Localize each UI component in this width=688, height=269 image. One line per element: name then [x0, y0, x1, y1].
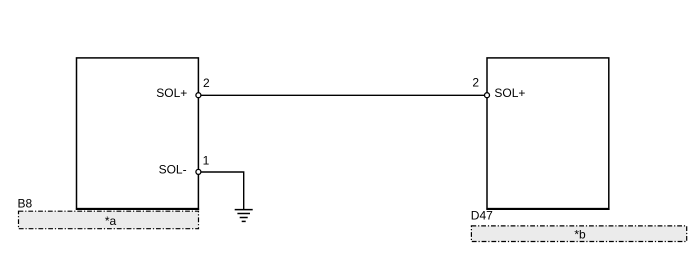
pin number 2 (B8) — [203, 76, 210, 90]
svg-text:SOL-: SOL- — [159, 163, 187, 177]
pin label SOL+ (D47) — [494, 86, 525, 100]
svg-text:SOL+: SOL+ — [156, 86, 187, 100]
pin number 1 (B8) — [203, 154, 210, 168]
pin number 2 (D47) — [472, 75, 479, 89]
svg-text:*a: *a — [105, 214, 117, 228]
svg-text:*b: *b — [574, 228, 586, 242]
component box B8 bottom edge — [76, 208, 199, 210]
svg-text:SOL+: SOL+ — [494, 86, 525, 100]
shield band *a — [19, 211, 199, 229]
pin label SOL- (B8) — [159, 163, 187, 177]
pin label SOL+ (B8) — [156, 86, 187, 100]
svg-text:D47: D47 — [471, 209, 493, 223]
svg-text:1: 1 — [203, 154, 210, 168]
pin 2 of B8 — [196, 93, 201, 98]
pin 1 of B8 — [196, 169, 201, 174]
svg-text:2: 2 — [203, 76, 210, 90]
component box D47 — [487, 58, 609, 209]
ground — [235, 210, 253, 222]
component box B8 — [77, 58, 199, 209]
wire pin 1 B8 to ground — [198, 172, 243, 209]
pin 2 of D47 — [485, 93, 490, 98]
shield band *b — [471, 226, 686, 242]
svg-text:B8: B8 — [18, 197, 33, 211]
component box D47 bottom edge — [486, 208, 609, 210]
connector label D47 — [471, 209, 493, 223]
wire pin 2 B8 to pin 2 D47 — [198, 94, 487, 96]
svg-text:2: 2 — [472, 75, 479, 89]
connector label B8 — [18, 197, 33, 211]
